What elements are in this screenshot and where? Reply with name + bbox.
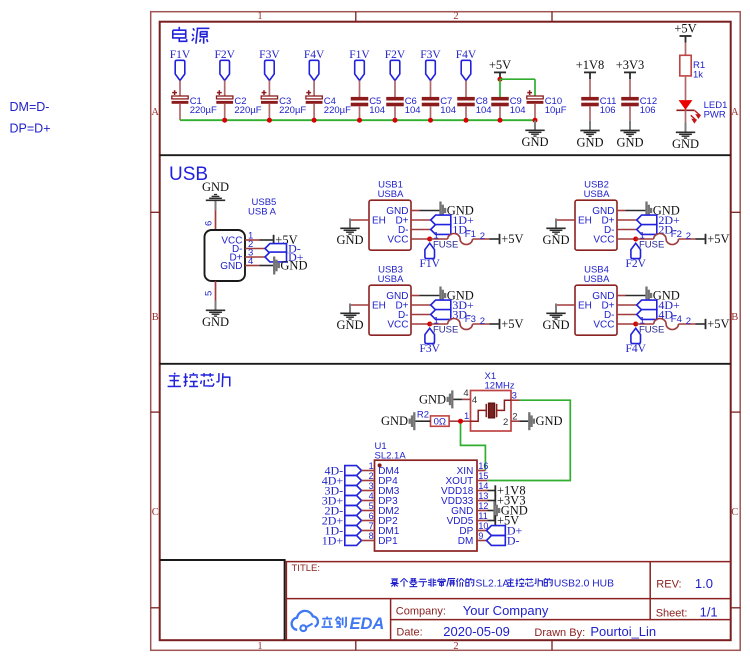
pin stub wire: [617, 219, 637, 221]
logo cloud line: [307, 624, 313, 628]
wire EH pin to ground: [350, 305, 369, 313]
wire: [473, 238, 490, 240]
pin stub wire: [362, 520, 375, 522]
ground flag (R2): [413, 412, 415, 430]
svg-text:USB2.0 HUB: USB2.0 HUB: [554, 578, 614, 589]
svg-text:DM: DM: [458, 536, 474, 547]
pin stub wire: [411, 229, 431, 231]
crystal X1 plate 2: [496, 404, 498, 417]
wire: [487, 500, 494, 502]
svg-text:13: 13: [478, 491, 488, 501]
resistor R2 body: [431, 416, 450, 426]
svg-text:EH: EH: [372, 300, 386, 311]
wire: [420, 210, 440, 212]
capacitor C11 106: [581, 97, 599, 101]
power flag +1V8 (U1): [494, 485, 496, 495]
ground flag (X1 pin2): [528, 412, 530, 430]
svg-text:Sheet:: Sheet:: [656, 607, 688, 619]
net port 3D+: [431, 300, 451, 310]
junction: [267, 118, 272, 123]
svg-text:106: 106: [600, 105, 616, 116]
net port F1V: [425, 243, 435, 258]
wire: [626, 295, 646, 297]
svg-text:A: A: [731, 107, 739, 118]
svg-text:GND: GND: [536, 414, 563, 428]
svg-text:5: 5: [369, 501, 374, 511]
svg-text:F1: F1: [465, 229, 476, 240]
wire: [394, 81, 396, 98]
wire: [636, 238, 654, 240]
pin stub wire: [617, 238, 636, 240]
ground flag GND: [439, 287, 441, 305]
wire X1 pin1 to junction: [461, 420, 471, 422]
pin stub wire: [411, 295, 420, 297]
net port 1D-: [431, 225, 451, 235]
capacitor C2 plates (polarized): [217, 96, 233, 99]
svg-text:1: 1: [464, 411, 469, 422]
pin stub wire: [411, 238, 430, 240]
svg-text:VCC: VCC: [387, 319, 408, 330]
section divider USB/MCU: [160, 363, 731, 365]
capacitor C5 plates: [351, 97, 369, 101]
svg-text:F2V: F2V: [385, 49, 406, 61]
net port 4D+: [637, 300, 657, 310]
svg-text:GND: GND: [336, 233, 363, 247]
svg-text:2: 2: [503, 417, 508, 428]
net port F4V: [631, 328, 641, 343]
svg-text:GND: GND: [202, 180, 229, 194]
junction: [464, 118, 469, 123]
wire: [534, 104, 536, 120]
net port D+ (U1): [487, 526, 506, 536]
svg-text:+5V: +5V: [707, 232, 729, 246]
crystal X1 crystal element: [489, 403, 495, 418]
svg-text:GND: GND: [542, 233, 569, 247]
pin stub wire DM: [477, 540, 487, 542]
svg-text:F3V: F3V: [419, 343, 440, 355]
svg-text:1D+: 1D+: [322, 533, 344, 547]
frame tick top 2|3: [551, 12, 553, 22]
pin stub wire VDD18: [477, 490, 487, 492]
svg-text:EDA: EDA: [350, 615, 385, 633]
pin stub wire: [362, 540, 375, 542]
svg-text:1: 1: [257, 641, 262, 652]
svg-text:Drawn By:: Drawn By:: [534, 627, 585, 639]
wire: [589, 79, 591, 97]
pin 3 stub wire: [511, 399, 520, 401]
wire: [465, 81, 467, 98]
ground (USB5 pin6): [215, 200, 217, 210]
pin stub wire: [617, 304, 637, 306]
crystal X1 internal lead 1: [471, 410, 487, 421]
pin stub wire: [617, 229, 637, 231]
svg-text:7: 7: [369, 521, 374, 531]
wire (green) +5V to C9: [499, 79, 501, 97]
pin stub wire D+: [245, 256, 265, 258]
pin stub wire: [411, 210, 420, 212]
pin 4 wire to ground: [462, 398, 470, 400]
net port F3V: [425, 328, 435, 343]
svg-text:SL2.1A: SL2.1A: [475, 578, 509, 589]
crystal X1 body: [471, 391, 512, 432]
wire: [629, 79, 631, 97]
net port F2V: [220, 60, 230, 80]
ground flag (U1): [493, 502, 495, 520]
svg-text:GND: GND: [220, 261, 242, 272]
power flag +5V: [705, 234, 707, 244]
svg-text:F4V: F4V: [625, 343, 646, 355]
svg-text:USBA: USBA: [584, 274, 611, 285]
wire: [359, 106, 361, 120]
svg-text:GND: GND: [616, 135, 643, 149]
junction: [633, 237, 638, 242]
svg-text:F4V: F4V: [456, 49, 477, 61]
wire: [313, 104, 315, 120]
wire EH pin to ground: [556, 220, 575, 228]
ground flag GND: [645, 287, 647, 305]
section divider MCU/title row: [160, 559, 286, 561]
svg-text:F3: F3: [465, 314, 476, 325]
power flag +1V8: [584, 71, 596, 73]
net port F1V: [175, 60, 185, 80]
svg-text:GND: GND: [280, 259, 307, 273]
capacitor C6 plates: [386, 97, 404, 101]
net port F4V: [309, 60, 319, 80]
wire: [260, 265, 274, 267]
wire: [430, 238, 448, 240]
wire: [359, 81, 361, 98]
pin stub wire D-: [245, 248, 265, 250]
svg-text:220µF: 220µF: [190, 105, 217, 116]
pin stub wire VDD5: [477, 520, 487, 522]
ground flag (USB5 pin4): [273, 257, 275, 275]
svg-text:220µF: 220µF: [279, 105, 306, 116]
svg-text:15: 15: [478, 471, 488, 481]
wire: [490, 323, 499, 325]
LED LED1 cathode bar: [676, 109, 694, 111]
pin stub wire XIN: [477, 470, 485, 472]
svg-text:GND: GND: [202, 315, 229, 329]
wire: [224, 104, 226, 120]
svg-text:5: 5: [204, 291, 215, 296]
svg-text:16: 16: [478, 461, 488, 471]
capacitor C1 plus sign: [172, 92, 177, 94]
svg-text:DP=D+: DP=D+: [10, 122, 51, 136]
crystal X1 internal lead 2: [497, 400, 511, 410]
connector USB2 body: [575, 200, 617, 250]
pin stub wire: [411, 323, 430, 325]
svg-text:12: 12: [478, 501, 488, 511]
frame tick left A|B: [151, 211, 160, 213]
wire: [430, 323, 448, 325]
pin stub wire GND: [477, 510, 487, 512]
pin stub wire VCC: [245, 239, 260, 241]
capacitor C12 106: [621, 97, 639, 101]
net port 2D+: [637, 215, 657, 225]
LED LED1 triangle: [679, 100, 693, 110]
svg-text:2: 2: [369, 471, 374, 481]
wire: [313, 81, 315, 97]
junction: [633, 322, 638, 327]
net port 2D-: [637, 225, 657, 235]
frame tick bottom 1|2: [355, 640, 357, 650]
svg-text:VCC: VCC: [593, 319, 614, 330]
svg-text:USBA: USBA: [378, 274, 405, 285]
capacitor C9 104: [491, 97, 509, 101]
junction: [498, 118, 503, 123]
svg-text:104: 104: [440, 105, 456, 116]
wire: [685, 76, 687, 100]
power flag +5V (U1): [494, 515, 496, 525]
svg-text:FUSE: FUSE: [433, 324, 458, 335]
pin stub wire: [617, 314, 637, 316]
pin stub wire: [411, 304, 431, 306]
net port F3V: [265, 60, 275, 80]
svg-text:C: C: [731, 507, 738, 518]
crystal X1 plate 1: [485, 404, 487, 417]
wire: [685, 110, 687, 126]
wire: [394, 106, 396, 120]
svg-text:104: 104: [510, 105, 526, 116]
svg-text:D-: D-: [507, 533, 520, 547]
junction: [393, 118, 398, 123]
wire: [487, 490, 494, 492]
title row bottom border: [286, 598, 730, 600]
wire: [473, 323, 490, 325]
logo cell right border: [390, 599, 392, 641]
svg-text:3: 3: [369, 481, 374, 491]
svg-text:B: B: [152, 312, 159, 323]
junction: [427, 237, 432, 242]
ground (USB2 shield): [555, 219, 557, 229]
wire (green) X1 pin3 to XOUT: [487, 400, 570, 480]
ground flag GND: [439, 202, 441, 220]
wire: [629, 106, 631, 120]
net port 1D+: [345, 536, 362, 546]
company row divider: [391, 619, 731, 621]
svg-text:104: 104: [405, 105, 421, 116]
wire: [268, 81, 270, 97]
ground bus wire (green): [180, 119, 535, 121]
svg-text:EH: EH: [578, 300, 592, 311]
rev/sheet cell left border: [649, 562, 651, 620]
pin 2 wire to ground: [511, 420, 519, 422]
wire: [679, 323, 696, 325]
svg-text:F2V: F2V: [214, 49, 235, 61]
IC U1 pin1 marker dot: [378, 463, 382, 467]
wire R2 to ground: [415, 420, 430, 422]
svg-text:C: C: [152, 507, 159, 518]
svg-text:+3V3: +3V3: [616, 58, 645, 72]
power flag +5V: [705, 319, 707, 329]
junction: [357, 118, 362, 123]
svg-text:USBA: USBA: [584, 189, 611, 200]
svg-text:104: 104: [369, 105, 385, 116]
wire: [696, 238, 705, 240]
svg-text:F1V: F1V: [349, 49, 370, 61]
ground (USB3 shield): [349, 304, 351, 314]
pin stub wire: [362, 480, 375, 482]
svg-text:2: 2: [453, 641, 458, 652]
capacitor C3 plates (polarized): [261, 96, 277, 99]
pin stub wire: [411, 219, 431, 221]
wire EH pin to ground: [350, 220, 369, 228]
svg-text:14: 14: [478, 481, 488, 491]
wire: [224, 81, 226, 97]
connector USB1 body: [369, 200, 411, 250]
section title 主控芯片: [173, 373, 176, 375]
svg-text:+5V: +5V: [489, 58, 511, 72]
pin stub wire GND: [245, 265, 260, 267]
wire: [179, 104, 181, 120]
svg-text:GND: GND: [672, 137, 699, 151]
svg-text:6: 6: [369, 511, 374, 521]
wire: [215, 281, 217, 301]
sheet inner frame: [160, 22, 731, 641]
svg-text:1: 1: [257, 11, 262, 22]
pin stub wire DP: [477, 530, 487, 532]
svg-text:1k: 1k: [693, 69, 703, 80]
net port 4D-: [637, 310, 657, 320]
svg-text:0Ω: 0Ω: [434, 416, 446, 427]
power flag +5V (R1): [680, 35, 692, 37]
ground (USB1 shield): [349, 219, 351, 229]
junction: [222, 118, 227, 123]
pin stub wire: [362, 470, 375, 472]
net port 3D-: [345, 486, 362, 496]
frame tick left C|D: [151, 607, 160, 609]
ground (USB5 pin5): [215, 301, 217, 311]
fuse F3: [448, 319, 473, 330]
svg-text:GND: GND: [521, 135, 548, 149]
svg-text:EH: EH: [578, 215, 592, 226]
svg-text:F1V: F1V: [419, 258, 440, 270]
svg-text:2: 2: [686, 231, 691, 242]
svg-text:4: 4: [369, 491, 374, 501]
IC U1 body: [375, 460, 478, 551]
wire: [260, 239, 273, 241]
title block left border: [285, 562, 287, 641]
net port F3V: [426, 60, 436, 80]
frame tick top 1|2: [355, 12, 357, 22]
svg-text:2: 2: [453, 11, 458, 22]
net port F2V: [631, 243, 641, 258]
svg-text:B: B: [731, 312, 738, 323]
capacitor C3 plus sign: [262, 92, 267, 94]
ground (C11): [589, 121, 591, 131]
LED LED1 emission arrows: [695, 111, 700, 118]
svg-text:2: 2: [512, 411, 517, 422]
junction: [533, 118, 538, 123]
frame tick bottom 2|3: [551, 640, 553, 650]
wire: [626, 210, 646, 212]
net port 1D-: [345, 526, 362, 536]
capacitor C1 plates (polarized): [172, 96, 188, 99]
svg-text:4: 4: [472, 395, 477, 406]
net port 2D+: [345, 516, 362, 526]
svg-text:2020-05-09: 2020-05-09: [443, 624, 510, 639]
svg-text:104: 104: [476, 105, 492, 116]
capacitor C4 plates (polarized): [306, 96, 322, 99]
capacitor C4 plus sign: [306, 92, 311, 94]
wire: [268, 104, 270, 120]
ground (LED1): [685, 123, 687, 133]
connector USB4 body: [575, 285, 617, 335]
wire: [487, 520, 494, 522]
svg-text:106: 106: [640, 105, 656, 116]
capacitor C2 plus sign: [217, 92, 222, 94]
svg-text:1: 1: [369, 461, 374, 471]
svg-text:DM=D-: DM=D-: [10, 100, 50, 114]
svg-text:6: 6: [204, 221, 215, 226]
sheet outer frame: [151, 12, 741, 651]
wire: [430, 81, 432, 98]
wire: [685, 43, 687, 56]
power flag +3V3 (U1): [494, 495, 496, 505]
wire: [179, 81, 181, 97]
svg-text:GND: GND: [542, 318, 569, 332]
junction: [427, 322, 432, 327]
svg-text:EH: EH: [372, 215, 386, 226]
svg-text:10µF: 10µF: [545, 105, 567, 116]
pin stub wire: [362, 500, 375, 502]
svg-text:2: 2: [480, 316, 485, 327]
wire: [430, 106, 432, 120]
net port 4D-: [345, 466, 362, 476]
capacitor C7 plates: [422, 97, 440, 101]
net port D+ (USB5): [265, 252, 287, 262]
section divider power/USB: [160, 154, 731, 156]
svg-text:GND: GND: [419, 392, 446, 406]
fuse F2: [654, 233, 679, 244]
svg-text:GND: GND: [381, 414, 408, 428]
svg-text:DP1: DP1: [378, 536, 398, 547]
connector USB3 body: [369, 285, 411, 335]
svg-text:F4: F4: [671, 314, 682, 325]
svg-text:1.0: 1.0: [695, 576, 713, 591]
wire: [420, 295, 440, 297]
connector USB5 body: [205, 230, 246, 281]
wire R2 to junction: [449, 420, 460, 422]
svg-text:F3V: F3V: [259, 49, 280, 61]
net port F1V: [355, 60, 365, 80]
frame tick right B|C: [731, 411, 741, 413]
ground flag (X1 pin4): [451, 390, 453, 408]
wire (green) junction to XIN: [461, 421, 486, 470]
frame tick right A|B: [731, 211, 741, 213]
svg-text:1/1: 1/1: [700, 605, 718, 620]
title block top border: [286, 561, 731, 563]
net port F4V: [461, 60, 471, 80]
svg-text:+1V8: +1V8: [576, 58, 605, 72]
svg-text:F4V: F4V: [304, 49, 325, 61]
section title 电源: [178, 27, 180, 30]
svg-text:9: 9: [478, 531, 483, 541]
wire: [589, 106, 591, 120]
resistor R1 1k: [680, 55, 691, 76]
svg-text:VCC: VCC: [387, 234, 408, 245]
pin stub wire: [617, 210, 626, 212]
svg-text:Pourtoi_Lin: Pourtoi_Lin: [590, 624, 656, 639]
ground (USB4 shield): [555, 304, 557, 314]
net port 3D+: [345, 496, 362, 506]
svg-text:+5V: +5V: [707, 317, 729, 331]
svg-text:+5V: +5V: [501, 317, 523, 331]
net port 2D-: [345, 506, 362, 516]
pin stub wire: [617, 295, 626, 297]
svg-text:220µF: 220µF: [324, 105, 351, 116]
svg-text:4: 4: [463, 388, 468, 399]
